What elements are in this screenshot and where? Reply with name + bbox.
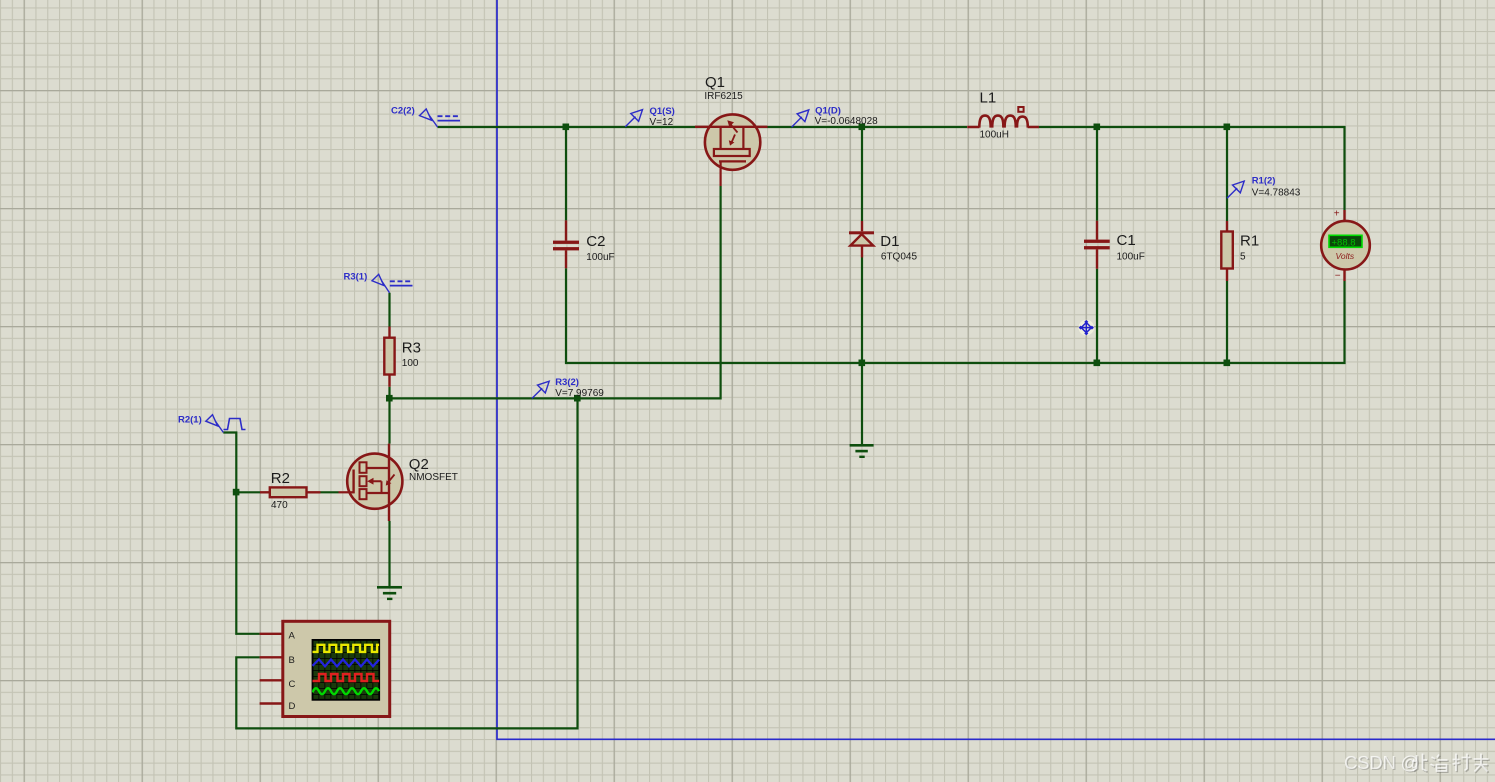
wire top rail [438,127,1345,210]
resistor R2 [260,487,321,497]
wire gate drive Q1 [390,186,721,398]
probe Q1(D) [792,106,879,127]
voltmeter [1321,209,1370,282]
svg-text:R3(2): R3(2) [555,377,579,388]
svg-text:C1: C1 [1117,232,1136,249]
svg-text:D: D [289,701,296,712]
svg-text:R3: R3 [402,339,421,356]
node junction R1 top [1224,124,1231,131]
svg-text:Q1(S): Q1(S) [650,106,675,117]
watermark CSDN [1344,752,1490,774]
ground D1 [850,444,874,458]
wire R1 branch [1226,127,1228,363]
svg-text:100uF: 100uF [586,252,614,263]
wire R2 to Q2 gate [236,491,338,493]
wire R2 input [223,433,259,634]
node junction R3 bottom [386,395,393,402]
node junction R2 tap [233,489,240,496]
svg-text:A: A [289,631,296,642]
svg-text:B: B [289,655,295,666]
svg-text:D1: D1 [880,233,899,250]
svg-text:470: 470 [271,500,288,511]
generator R3(1) [344,272,413,293]
svg-text:L1: L1 [980,90,997,107]
wire scope B loop [236,398,577,728]
svg-text:R3(1): R3(1) [344,272,368,283]
svg-text:R1(2): R1(2) [1252,176,1276,187]
svg-text:IRF6215: IRF6215 [704,91,743,102]
node junction C1 bottom [1094,360,1101,367]
svg-text:5: 5 [1240,252,1246,263]
svg-text:Volts: Volts [1336,251,1355,261]
probe R3(2) [532,377,604,399]
svg-text:C: C [289,679,296,690]
probe R1(2) [1227,176,1301,199]
svg-text:100: 100 [402,358,419,369]
svg-text:Q2: Q2 [409,456,429,473]
oscilloscope [260,621,390,716]
transistor Q1 [695,114,768,186]
svg-text:100uH: 100uH [980,130,1009,141]
transistor Q2 [339,444,403,521]
node junction C1 top [1094,124,1101,131]
svg-text:NMOSFET: NMOSFET [409,472,458,483]
node junction D1 bottom [859,360,866,367]
svg-text:R2: R2 [271,470,290,487]
wire C2 branch [566,127,1345,363]
origin marker [1079,320,1095,336]
svg-text:−: − [1335,271,1341,282]
node junction D1 top [859,124,866,131]
svg-text:CSDN @: CSDN @ [1344,752,1419,773]
svg-text:C2: C2 [586,233,605,250]
svg-text:+: + [1334,209,1340,220]
svg-text:R2(1): R2(1) [178,415,202,426]
node junction C2 top [563,124,570,131]
wire C1 branch [1096,127,1098,363]
node junction gate tap [574,395,581,402]
svg-text:+88.8: +88.8 [1332,237,1356,248]
node junction R1 bottom [1224,360,1231,367]
generator C2(2) [391,106,460,128]
resistor R3 [384,327,394,387]
capacitor C1 [1084,221,1110,269]
inductor L1 [967,107,1039,128]
capacitor C2 [553,220,579,268]
svg-text:V=-0.0648028: V=-0.0648028 [815,116,879,127]
svg-text:6TQ045: 6TQ045 [881,252,918,263]
probe Q1(S) [625,106,675,128]
svg-text:C2(2): C2(2) [391,106,415,117]
svg-text:V=4.78843: V=4.78843 [1252,187,1301,198]
diode D1 [849,221,874,258]
svg-text:V=7.99769: V=7.99769 [555,388,604,399]
svg-text:R1: R1 [1240,233,1259,250]
svg-text:Q1: Q1 [705,74,725,91]
wire R3 branch [388,293,390,587]
wire D1 branch [861,127,863,445]
svg-text:V=12: V=12 [650,117,674,128]
svg-text:100uF: 100uF [1117,252,1145,263]
sheet border (blue) [497,0,1495,739]
generator R2(1) [178,415,246,433]
resistor R1 [1221,221,1233,281]
ground Q2 [377,586,402,600]
